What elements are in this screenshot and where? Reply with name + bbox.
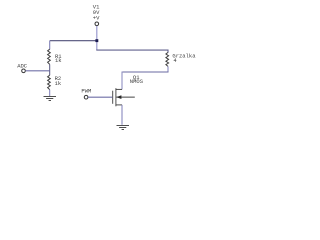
wire: ADC to divider node (26, 70, 50, 72)
source lead (116, 104, 122, 106)
substrate arrow line (116, 96, 134, 98)
drain lead (116, 88, 122, 90)
svg-text:PWM: PWM (81, 87, 91, 94)
svg-text:ADC: ADC (17, 63, 28, 70)
Grzalka value label (172, 52, 196, 64)
resistor R2 (48, 75, 51, 89)
R1 value label (55, 53, 62, 64)
wire: source down to ground (121, 105, 123, 125)
wire: Grzalka down, left, down to drain (167, 66, 169, 72)
ground below Q1 source (117, 126, 130, 130)
R2 value label (55, 75, 62, 87)
wire: left branch down to R1 (49, 41, 51, 50)
channel plate (115, 88, 117, 106)
svg-text:+V: +V (93, 14, 100, 21)
wire: R2 to ground (49, 90, 51, 97)
svg-text:NMOS: NMOS (130, 78, 144, 85)
svg-text:1k: 1k (55, 57, 62, 64)
resistor R1 (48, 49, 51, 64)
resistor Grzalka (166, 52, 169, 66)
Q1 label (130, 74, 144, 85)
transistor Q1 NMOS (113, 88, 135, 106)
wire: V1 junction to Grzalka top (96, 50, 168, 53)
power terminal circle V1 (95, 22, 99, 26)
wire: between R1 and R2 (49, 64, 51, 75)
wire: PWM to gate (88, 96, 112, 98)
wire: left branch horizontal at y=40.7 (50, 40, 97, 42)
power terminal V1 label (93, 4, 100, 22)
wire: power terminal down to corner (96, 26, 98, 50)
PWM terminal circle (84, 95, 88, 99)
gate plate (112, 91, 114, 104)
svg-text:1k: 1k (55, 80, 62, 87)
ground below R2 (44, 97, 57, 101)
substrate arrowhead (116, 95, 121, 99)
ADC terminal circle (22, 69, 26, 73)
junction dot (95, 39, 98, 42)
